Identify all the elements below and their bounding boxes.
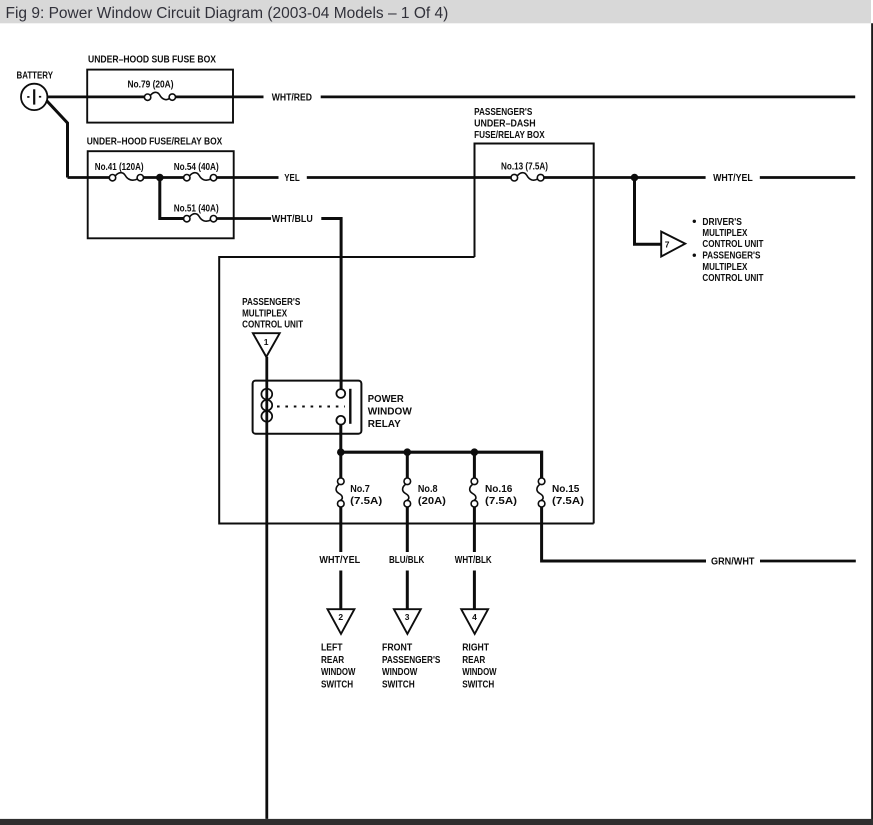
wire: WHT/RED to right edge: [321, 96, 856, 99]
wire: battery diagonal down to YEL feed: [47, 101, 68, 178]
svg-text:WHT/BLK: WHT/BLK: [455, 555, 493, 566]
fuse No.79 (20A): [128, 79, 176, 100]
svg-text:3: 3: [405, 612, 410, 622]
junction dot bus/No.7: [337, 448, 345, 456]
svg-text:PASSENGER'S UNDER–DASH: PASSENGER'S UNDER–DASH FUSE/RELAY BOX: [474, 107, 545, 141]
connector 4: [461, 609, 488, 634]
title bar: [0, 0, 871, 23]
wire: connector 1 through relay coil to bottom bar: [265, 357, 268, 819]
fuse No.41 (120A): [95, 162, 144, 181]
fuse bus wire: [341, 452, 542, 478]
wire: fuse No.7 to WHT/YEL label: [339, 507, 342, 552]
wire: junction down to connector 7: [635, 178, 662, 245]
fuse No.13 (7.5A): [501, 162, 548, 181]
wire: fuse No.41 to junction to fuse No.54: [143, 176, 183, 179]
svg-text:WHT/BLU: WHT/BLU: [272, 214, 313, 225]
svg-text:BLU/BLK: BLU/BLK: [389, 555, 425, 566]
wire: junction down to fuse No.51: [160, 178, 184, 219]
label: driver's / passenger's multiplex control unit: [693, 217, 767, 284]
wire: fuse No.15 to GRN/WHT label: [542, 507, 706, 561]
svg-text:BATTERY: BATTERY: [17, 71, 54, 82]
wire: WHT/YEL to right edge: [760, 176, 855, 179]
junction dot No.41/No.54/No.51: [156, 174, 164, 182]
svg-text:No.79 (20A): No.79 (20A): [128, 79, 174, 90]
connector 2: [328, 609, 355, 634]
dotted link coil to contact: [277, 406, 345, 408]
svg-text:7: 7: [665, 239, 670, 249]
under-hood sub fuse box: [87, 54, 233, 122]
relay contact: [336, 389, 350, 425]
wire: GRN/WHT to right edge: [760, 560, 856, 563]
connector 1: [253, 333, 280, 357]
wire: battery to sub fuse box (WHT/RED): [47, 96, 144, 99]
fuse No.16 (7.5A): [470, 478, 517, 507]
connector 7: [661, 232, 685, 257]
svg-text:4: 4: [472, 612, 477, 622]
svg-text:UNDER–HOOD SUB FUSE BOX: UNDER–HOOD SUB FUSE BOX: [88, 54, 216, 65]
connector 3: [394, 609, 421, 634]
svg-text:Fig 9: Power Window Circuit Di: Fig 9: Power Window Circuit Diagram (200…: [6, 5, 449, 22]
wire: label to connector 3: [406, 571, 409, 610]
bottom border bar: [0, 819, 873, 825]
wire: fuse No.51 to WHT/BLU label: [217, 217, 271, 220]
wire: bus down to fuse No.8: [406, 452, 409, 478]
svg-text:2: 2: [338, 612, 343, 622]
fuse No.7 (7.5A): [336, 478, 382, 507]
wire: label to connector 2: [339, 571, 342, 610]
power window relay: [253, 381, 415, 434]
wire: WHT/BLU corner down to relay contact: [321, 219, 341, 390]
svg-text:WHT/YEL: WHT/YEL: [319, 555, 360, 566]
junction dot bus/No.8: [404, 448, 412, 456]
relay coil: [261, 389, 272, 422]
svg-text:UNDER–HOOD FUSE/RELAY BOX: UNDER–HOOD FUSE/RELAY BOX: [87, 136, 223, 147]
under-hood fuse/relay box: [87, 136, 234, 238]
wire: YEL feed into fuse No.41: [68, 176, 110, 179]
svg-text:GRN/WHT: GRN/WHT: [711, 557, 755, 568]
junction dot WHT/YEL branch: [631, 174, 639, 182]
svg-text:No.41 (120A): No.41 (120A): [95, 162, 144, 173]
wire: relay contact to fuse bus: [339, 425, 342, 453]
wire: fuse No.54 to YEL label: [217, 176, 279, 179]
svg-text:No.15 (7.5A): No.15 (7.5A): [552, 484, 584, 507]
svg-text:WHT/RED: WHT/RED: [272, 92, 312, 103]
passenger's under-dash fuse/relay box: [474, 107, 594, 523]
junction dot bus/No.16: [471, 448, 479, 456]
fuse No.51 (40A): [174, 203, 219, 222]
svg-text:No.54 (40A): No.54 (40A): [174, 162, 219, 173]
svg-text:No.16 (7.5A): No.16 (7.5A): [485, 484, 517, 507]
svg-text:WHT/YEL: WHT/YEL: [713, 173, 753, 184]
svg-text:No.13 (7.5A): No.13 (7.5A): [501, 162, 548, 173]
battery: [21, 84, 47, 110]
fuse No.15 (7.5A): [537, 478, 584, 507]
fuse No.54 (40A): [174, 162, 219, 181]
right border: [871, 23, 873, 825]
wire: bus down to fuse No.7: [339, 452, 342, 478]
wire: fuse No.16 to WHT/BLK label: [473, 507, 476, 552]
svg-text:1: 1: [264, 337, 269, 347]
main junction box outline: [219, 257, 594, 524]
wire: fuse No.13 to WHT/YEL label: [544, 176, 706, 179]
svg-text:No.51 (40A): No.51 (40A): [174, 203, 219, 214]
wire: YEL to fuse No.13: [307, 176, 512, 179]
wire: label to connector 4: [473, 571, 476, 610]
wire: fuse No.79 to WHT/RED label: [175, 96, 263, 99]
fuse No.8 (20A): [403, 478, 446, 507]
svg-text:YEL: YEL: [284, 173, 300, 184]
wire: bus down to fuse No.16: [473, 452, 476, 478]
wire: fuse No.8 to BLU/BLK label: [406, 507, 409, 552]
